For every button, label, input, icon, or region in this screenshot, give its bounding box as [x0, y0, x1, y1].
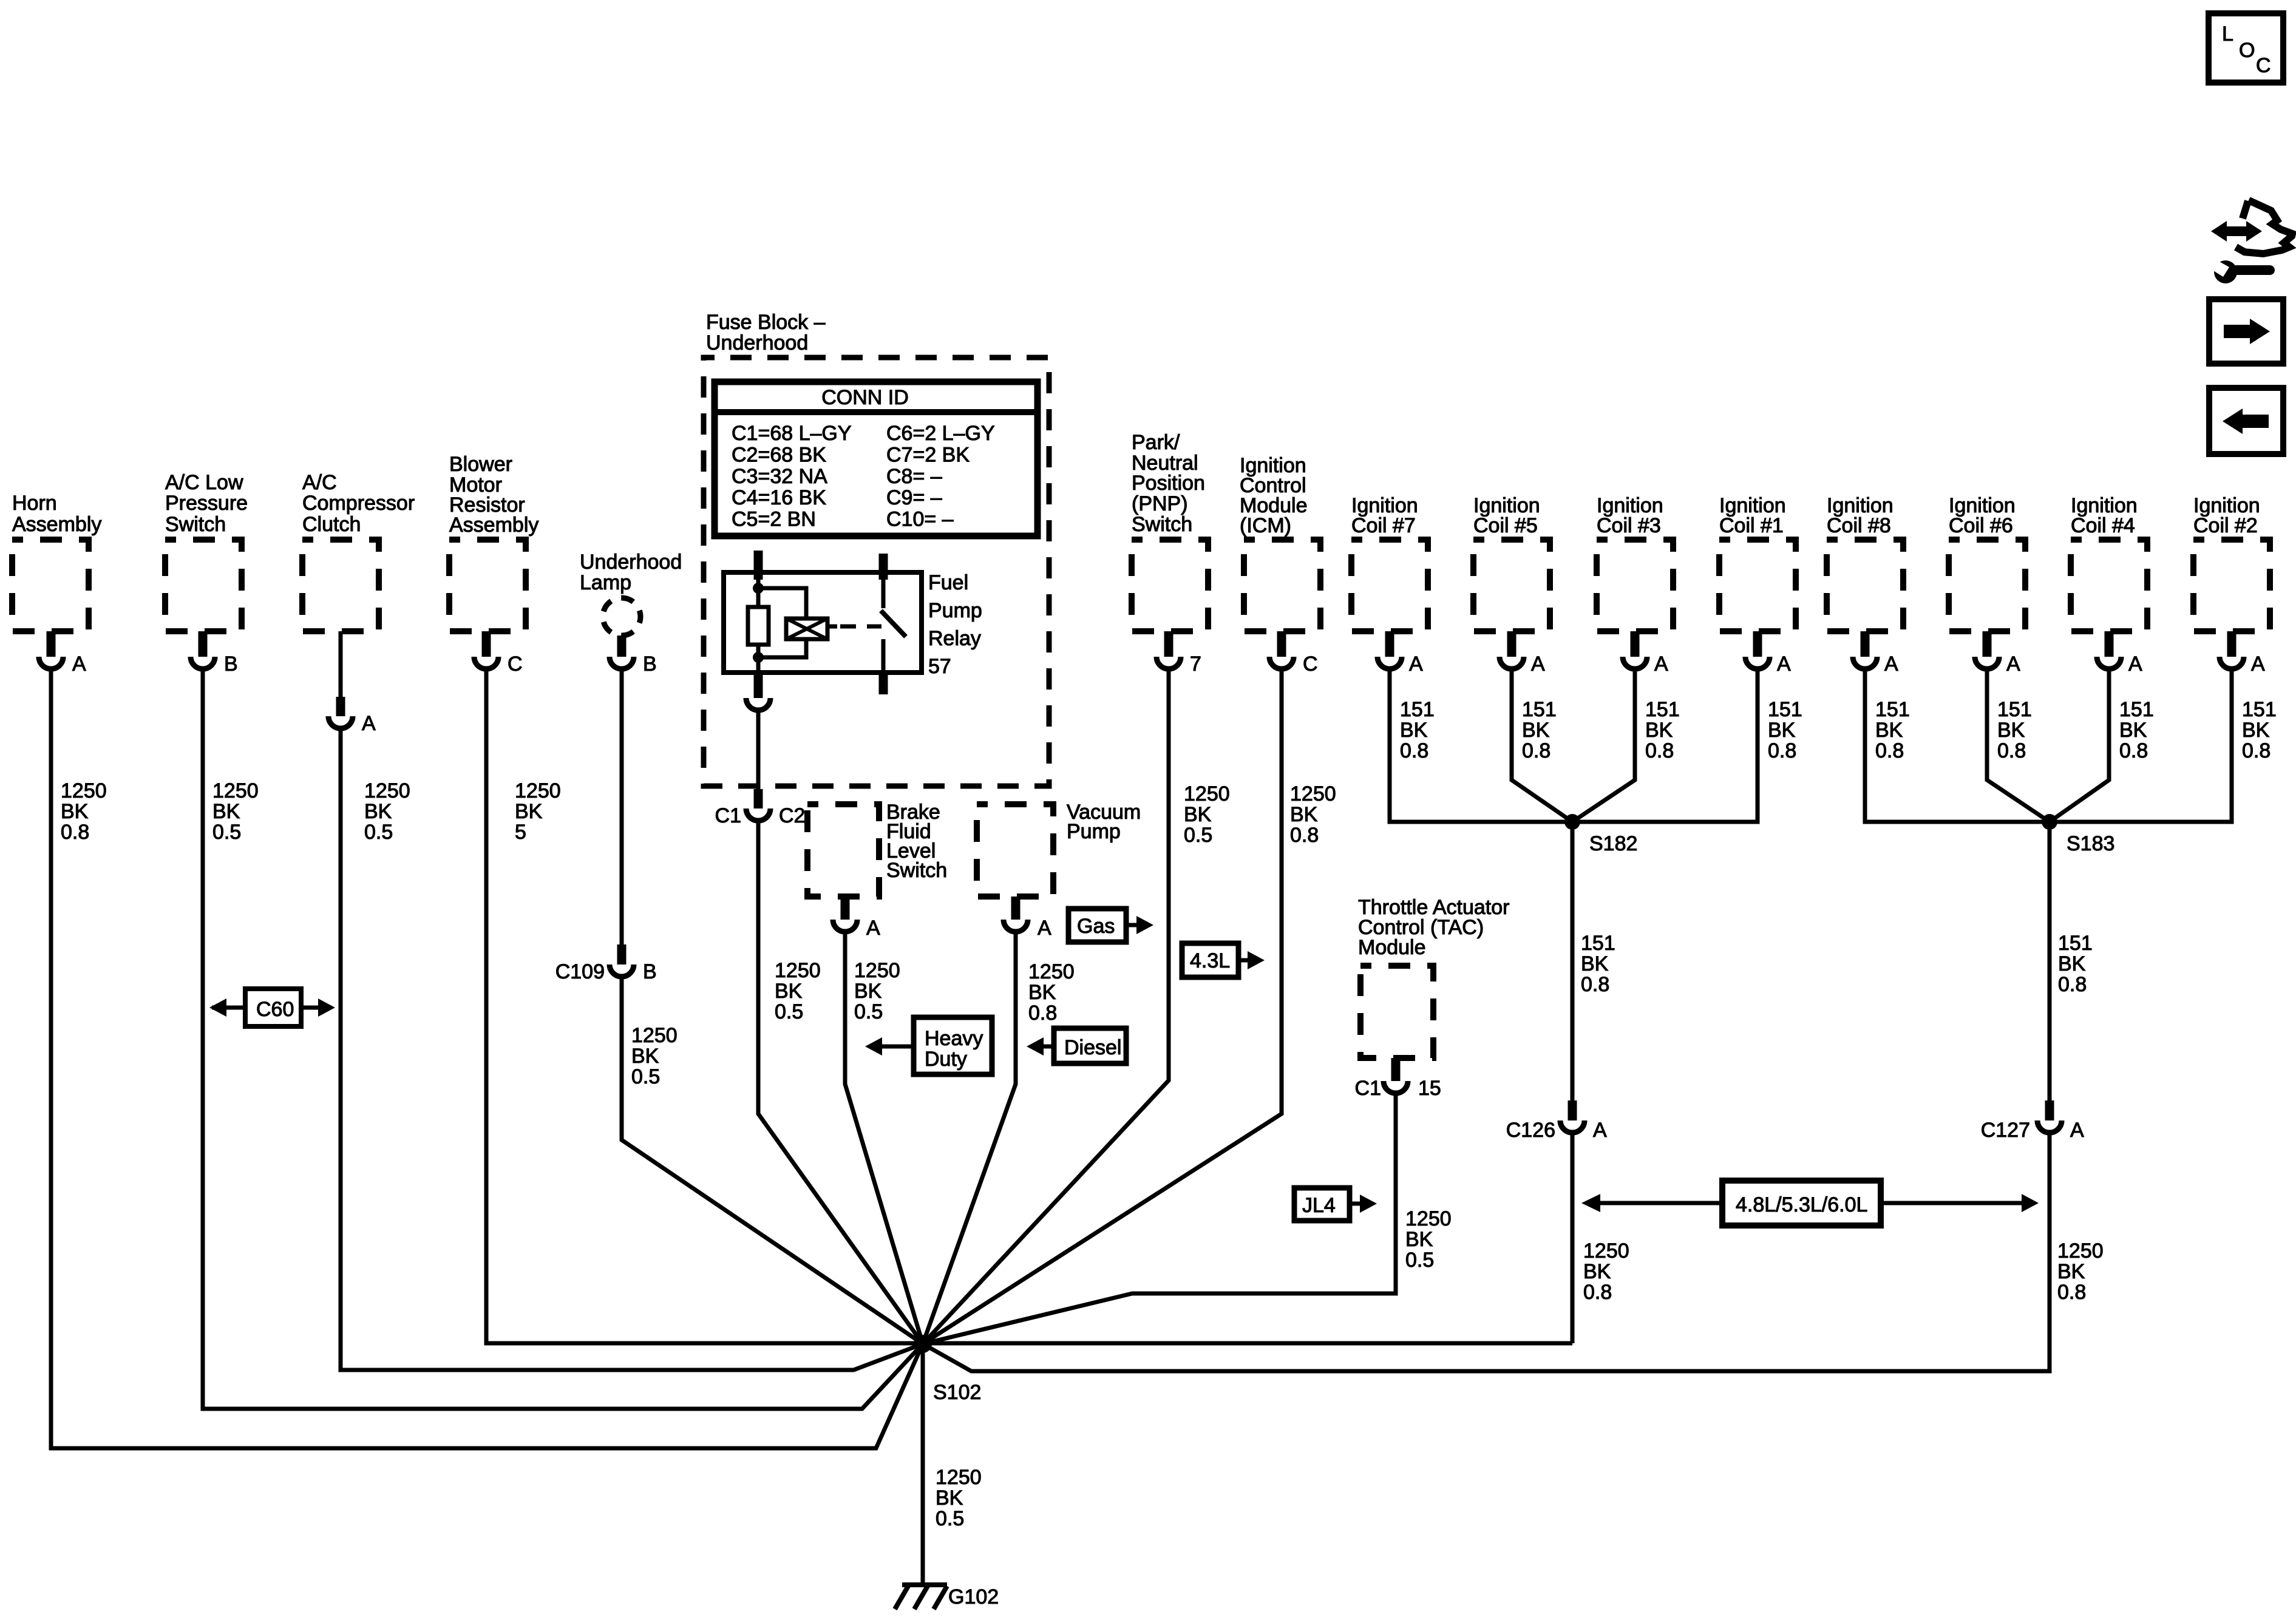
A/C low pressure connector pin B [191, 631, 238, 676]
svg-text:4.8L/5.3L/6.0L: 4.8L/5.3L/6.0L [1736, 1193, 1867, 1216]
svg-text:1250: 1250 [775, 959, 821, 982]
svg-text:Coil #3: Coil #3 [1597, 514, 1661, 537]
svg-text:Fuse Block –: Fuse Block – [706, 311, 826, 334]
wire coil #7 to S182 [1390, 671, 1572, 822]
svg-text:C: C [2256, 54, 2271, 77]
svg-text:BK: BK [1290, 803, 1318, 826]
fuse block underhood dashed box [704, 311, 1049, 786]
svg-text:BK: BK [775, 980, 803, 1003]
svg-text:BK: BK [515, 800, 543, 823]
wire horn to S102 [51, 671, 923, 1448]
svg-text:0.5: 0.5 [1405, 1249, 1434, 1272]
svg-text:C1: C1 [715, 804, 741, 827]
svg-text:BK: BK [1997, 719, 2025, 742]
svg-text:A: A [2251, 653, 2265, 676]
svg-text:1250: 1250 [364, 779, 410, 802]
svg-text:BK: BK [1875, 719, 1903, 742]
svg-text:1250: 1250 [854, 959, 900, 982]
wire label 1250 BK 0.5 (fuse block) [775, 959, 821, 1023]
svg-text:0.8: 0.8 [61, 821, 89, 844]
wire label 1250 BK 0.8 (C127) [2057, 1239, 2104, 1304]
wire vacuum pump to S102 [923, 934, 1016, 1344]
svg-text:Pump: Pump [928, 599, 982, 622]
svg-text:Assembly: Assembly [449, 514, 538, 537]
svg-text:C: C [1303, 653, 1318, 676]
wire lamp to C109 [620, 671, 624, 944]
svg-text:Park/: Park/ [1132, 431, 1180, 454]
wire label 1250 BK 0.8 (C126) [1583, 1239, 1629, 1304]
svg-text:BK: BK [61, 800, 89, 823]
wire A/C low pressure switch to S102 [203, 671, 923, 1409]
wire label 1250 BK 0.5 (underhood lamp) [631, 1024, 678, 1088]
svg-text:Coil #5: Coil #5 [1473, 514, 1538, 537]
svg-text:151: 151 [2058, 932, 2093, 955]
svg-text:0.8: 0.8 [1028, 1002, 1057, 1025]
wire label 1250 BK 0.8 (vacuum pump) [1028, 960, 1075, 1025]
wire coil #4 to S183 [2050, 671, 2109, 822]
svg-text:S182: S182 [1589, 832, 1637, 855]
wire S102 to G102 [921, 1344, 925, 1583]
relay resistor [748, 588, 769, 657]
svg-text:A: A [1038, 917, 1051, 940]
svg-text:0.8: 0.8 [1997, 739, 2026, 762]
4.8L/5.3L/6.0L tag with arrows [1581, 1181, 2039, 1225]
svg-text:Underhood: Underhood [706, 331, 808, 354]
svg-text:Coil #6: Coil #6 [1949, 514, 2013, 537]
svg-text:A: A [2128, 653, 2142, 676]
svg-text:A: A [1531, 653, 1545, 676]
svg-text:Coil #8: Coil #8 [1827, 514, 1891, 537]
JL4 tag [1294, 1188, 1377, 1221]
svg-text:1250: 1250 [1184, 782, 1230, 805]
connector C126 pin A [1506, 1100, 1607, 1142]
svg-text:0.5: 0.5 [1184, 824, 1212, 847]
forward arrow icon [2209, 299, 2283, 364]
component view icon (car outline with arrow and wrench) [2209, 200, 2292, 283]
svg-text:0.5: 0.5 [364, 821, 393, 844]
svg-text:BK: BK [2057, 1260, 2085, 1283]
LOC icon [2209, 13, 2283, 83]
svg-text:0.8: 0.8 [1645, 739, 1674, 762]
svg-text:CONN ID: CONN ID [821, 386, 909, 409]
wire label 151 BK 0.8 (coil #1) [1768, 698, 1802, 762]
svg-text:15: 15 [1418, 1077, 1441, 1100]
ICM connector pin C [1269, 631, 1318, 676]
connector C109 pin B [555, 944, 657, 983]
wire label 1250 BK 0.5 (PNP) [1184, 782, 1230, 847]
wire label 151 BK 0.8 (coil #5) [1522, 698, 1557, 762]
svg-text:0.5: 0.5 [212, 821, 241, 844]
relay junction dot bottom [753, 652, 764, 663]
wire label 151 BK 0.8 (S183) [2058, 932, 2093, 996]
wire C2 to S102 [758, 823, 923, 1344]
wire label 151 BK 0.8 (coil #3) [1645, 698, 1680, 762]
svg-text:151: 151 [1768, 698, 1802, 721]
park neutral position switch box [1132, 431, 1208, 631]
wire label 1250 BK 0.8 (ICM) [1290, 782, 1336, 847]
svg-text:0.8: 0.8 [2057, 1281, 2086, 1304]
svg-text:Coil #4: Coil #4 [2071, 514, 2135, 537]
svg-text:Switch: Switch [165, 513, 226, 536]
svg-text:BK: BK [1768, 719, 1796, 742]
relay switch [879, 554, 906, 694]
wire label 1250 BK 0.5 (TAC) [1405, 1207, 1452, 1272]
svg-text:C6=2 L–GY: C6=2 L–GY [886, 422, 995, 445]
A/C compressor clutch box [302, 471, 415, 631]
wire label 1250 BK 0.8 (horn) [61, 779, 107, 844]
svg-text:1250: 1250 [1028, 960, 1075, 983]
wire label 1250 BK 0.5 (ground wire) [936, 1466, 982, 1530]
svg-text:C4=16 BK: C4=16 BK [732, 486, 826, 509]
svg-text:BK: BK [1405, 1228, 1433, 1251]
splice S183 [2042, 814, 2114, 855]
svg-text:0.8: 0.8 [1290, 824, 1319, 847]
wire label 151 BK 0.8 (coil #6) [1997, 698, 2032, 762]
svg-text:Switch: Switch [1132, 513, 1192, 536]
svg-text:4.3L: 4.3L [1190, 949, 1230, 972]
svg-text:0.8: 0.8 [2058, 973, 2087, 996]
svg-text:Coil #2: Coil #2 [2193, 514, 2258, 537]
svg-text:A: A [1654, 653, 1668, 676]
wire coil #6 to S183 [1987, 671, 2050, 822]
svg-text:BK: BK [212, 800, 240, 823]
svg-text:7: 7 [1190, 653, 1201, 676]
svg-text:1250: 1250 [631, 1024, 678, 1047]
wire C126 to S102 [1571, 1135, 1575, 1343]
svg-text:BK: BK [631, 1045, 659, 1068]
wire label 151 BK 0.8 (coil #7) [1400, 698, 1435, 762]
svg-text:151: 151 [1997, 698, 2032, 721]
relay coil-side top lead [754, 551, 763, 590]
svg-text:Clutch: Clutch [302, 513, 361, 536]
wire brake fluid switch to S102 [845, 934, 923, 1344]
svg-text:S102: S102 [933, 1381, 981, 1404]
svg-text:L: L [2222, 22, 2233, 46]
wire label 1250 BK 0.5 (A/C low pressure) [212, 779, 259, 844]
ignition coil #1 connector pin A [1745, 631, 1791, 676]
wire coil #8 to S183 [1865, 671, 2050, 822]
svg-text:0.8: 0.8 [1522, 739, 1550, 762]
svg-text:C10= –: C10= – [886, 508, 954, 531]
connector C127 pin A [1981, 1100, 2084, 1142]
fuel pump relay 57 [724, 571, 982, 678]
underhood lamp symbol [580, 551, 682, 636]
svg-text:C127: C127 [1981, 1119, 2030, 1142]
horn connector pin A [39, 631, 86, 676]
svg-text:151: 151 [2242, 698, 2277, 721]
Diesel tag [1027, 1028, 1126, 1063]
ignition coil #7 box [1351, 494, 1428, 631]
svg-text:BK: BK [1522, 719, 1550, 742]
wire label 151 BK 0.8 (S182) [1581, 932, 1615, 996]
svg-text:0.5: 0.5 [936, 1507, 964, 1530]
wire coil #1 to S182 [1572, 671, 1758, 822]
svg-text:151: 151 [1522, 698, 1557, 721]
svg-text:A: A [1409, 653, 1423, 676]
wire coil #2 to S183 [2050, 671, 2232, 822]
svg-text:C60: C60 [256, 998, 294, 1021]
svg-text:JL4: JL4 [1302, 1194, 1336, 1217]
svg-text:BK: BK [936, 1486, 963, 1510]
svg-text:Relay: Relay [928, 627, 981, 650]
wire ICM to S102 [923, 671, 1282, 1344]
svg-text:Coil #7: Coil #7 [1351, 514, 1416, 537]
ignition coil #4 box [2071, 494, 2147, 631]
svg-text:BK: BK [1400, 719, 1428, 742]
wire label 151 BK 0.8 (coil #8) [1875, 698, 1910, 762]
svg-text:C2=68 BK: C2=68 BK [732, 443, 826, 466]
TAC connector C1 pin 15 [1355, 1058, 1441, 1100]
svg-text:1250: 1250 [61, 779, 107, 802]
svg-text:C2: C2 [779, 804, 805, 827]
svg-text:0.8: 0.8 [2242, 739, 2271, 762]
svg-text:BK: BK [364, 800, 392, 823]
svg-text:B: B [643, 960, 657, 983]
CONN ID table [715, 382, 1038, 536]
svg-text:151: 151 [1400, 698, 1435, 721]
svg-text:BK: BK [1645, 719, 1673, 742]
svg-text:151: 151 [2119, 698, 2154, 721]
svg-text:C8= –: C8= – [886, 465, 942, 488]
wire A/C compressor clutch to S102 [341, 731, 923, 1370]
blower connector pin C [474, 631, 523, 676]
svg-text:151: 151 [1645, 698, 1680, 721]
ignition coil #2 connector pin A [2220, 631, 2265, 676]
throttle actuator control module box [1358, 896, 1509, 1058]
svg-text:Switch: Switch [886, 859, 947, 882]
ignition coil #6 connector pin A [1975, 631, 2020, 676]
svg-text:5: 5 [515, 821, 526, 844]
splice S102 [914, 1335, 981, 1404]
svg-text:BK: BK [1581, 952, 1609, 975]
svg-text:BK: BK [1184, 803, 1212, 826]
svg-text:B: B [643, 653, 657, 676]
ignition coil #8 connector pin A [1853, 631, 1898, 676]
svg-text:0.8: 0.8 [1581, 973, 1609, 996]
wire S183 to C127 [2048, 822, 2052, 1100]
svg-text:Assembly: Assembly [12, 513, 101, 536]
svg-text:A: A [72, 653, 86, 676]
svg-text:C1: C1 [1355, 1077, 1381, 1100]
svg-text:0.8: 0.8 [2119, 739, 2148, 762]
ground G102 [895, 1585, 999, 1609]
svg-text:BK: BK [2058, 952, 2086, 975]
ignition coil #3 connector pin A [1623, 631, 1668, 676]
svg-text:Lamp: Lamp [580, 571, 631, 594]
svg-text:C1=68 L–GY: C1=68 L–GY [732, 422, 852, 445]
ignition control module box [1240, 454, 1320, 631]
svg-text:A/C Low: A/C Low [165, 471, 243, 494]
svg-text:C9= –: C9= – [886, 486, 942, 509]
4.3L tag [1182, 943, 1265, 977]
svg-text:(ICM): (ICM) [1240, 514, 1291, 537]
svg-text:A: A [1777, 653, 1791, 676]
svg-text:1250: 1250 [936, 1466, 982, 1489]
vacuum pump connector pin A [1004, 897, 1051, 940]
wire relay to fuse block edge [756, 713, 761, 789]
ignition coil #5 connector pin A [1500, 631, 1545, 676]
svg-text:Module: Module [1358, 936, 1426, 959]
wire S182 to C126 [1571, 822, 1575, 1100]
svg-text:A: A [866, 917, 880, 940]
svg-text:A: A [1884, 653, 1898, 676]
underhood lamp connector pin B [610, 636, 657, 676]
wire blower to S102 (horizontal through S102 to C126) [486, 671, 1572, 1343]
svg-text:Pump: Pump [1067, 820, 1121, 843]
ignition coil #5 box [1473, 494, 1550, 631]
wire label 1250 BK 5 (blower) [515, 779, 561, 844]
relay coil branch with X coil symbol [758, 588, 827, 657]
svg-text:0.8: 0.8 [1400, 739, 1428, 762]
svg-text:1250: 1250 [1290, 782, 1336, 805]
svg-text:O: O [2239, 39, 2255, 62]
svg-text:1250: 1250 [1405, 1207, 1452, 1230]
svg-text:C109: C109 [555, 960, 605, 983]
svg-text:151: 151 [1581, 932, 1615, 955]
Heavy Duty tag [865, 1017, 992, 1074]
svg-text:Compressor: Compressor [302, 492, 415, 515]
back arrow icon [2209, 388, 2283, 454]
horn assembly box [12, 492, 101, 631]
svg-text:A/C: A/C [302, 471, 337, 494]
svg-text:BK: BK [1583, 1260, 1611, 1283]
svg-text:C5=2 BN: C5=2 BN [732, 508, 816, 531]
wire label 1250 BK 0.5 (A/C compressor) [364, 779, 410, 844]
svg-text:0.5: 0.5 [854, 1000, 883, 1023]
brake fluid level switch box [807, 801, 947, 897]
svg-text:Duty: Duty [925, 1048, 967, 1071]
svg-text:C: C [508, 653, 523, 676]
svg-text:(PNP): (PNP) [1132, 492, 1188, 515]
svg-text:0.5: 0.5 [631, 1065, 660, 1088]
wire TAC to S102 [923, 1096, 1396, 1344]
relay output lead and connector [746, 657, 770, 710]
svg-text:0.8: 0.8 [1583, 1281, 1612, 1304]
svg-text:Heavy: Heavy [925, 1027, 983, 1050]
svg-text:Diesel: Diesel [1064, 1036, 1121, 1059]
wire clutch box to connector [339, 631, 343, 697]
svg-text:C7=2 BK: C7=2 BK [886, 443, 970, 466]
svg-text:Pressure: Pressure [165, 492, 248, 515]
svg-text:C3=32 NA: C3=32 NA [732, 465, 827, 488]
ignition coil #2 box [2193, 494, 2270, 631]
svg-text:1250: 1250 [1583, 1239, 1629, 1263]
svg-text:C126: C126 [1506, 1119, 1555, 1142]
svg-text:BK: BK [854, 980, 882, 1003]
svg-text:57: 57 [928, 655, 951, 678]
svg-text:A: A [2006, 653, 2020, 676]
connector C60 with arrows [209, 989, 335, 1026]
svg-text:Underhood: Underhood [580, 551, 682, 574]
ignition coil #1 box [1719, 494, 1796, 631]
relay junction dot top [753, 583, 764, 594]
svg-text:BK: BK [2119, 719, 2147, 742]
svg-text:Coil #1: Coil #1 [1719, 514, 1784, 537]
svg-text:A: A [2070, 1119, 2084, 1142]
ignition coil #7 connector pin A [1377, 631, 1423, 676]
svg-text:S183: S183 [2067, 832, 2114, 855]
blower motor resistor assembly box [449, 453, 538, 631]
PNP connector pin 7 [1156, 631, 1201, 676]
A/C compressor clutch connector pin A [328, 697, 376, 735]
wire C127 to S102 [923, 1135, 2050, 1371]
svg-text:Horn: Horn [12, 492, 57, 515]
ignition coil #6 box [1949, 494, 2025, 631]
wire label 151 BK 0.8 (coil #4) [2119, 698, 2154, 762]
svg-text:1250: 1250 [212, 779, 259, 802]
splice S182 [1564, 814, 1637, 855]
relay mechanical link dashes [827, 625, 881, 629]
wire label 1250 BK 0.5 (brake fluid) [854, 959, 900, 1023]
ignition coil #8 box [1827, 494, 1903, 631]
ignition coil #4 connector pin A [2097, 631, 2142, 676]
wire coil #3 to S182 [1572, 671, 1635, 822]
svg-text:Fuel: Fuel [928, 571, 968, 594]
ignition coil #3 box [1597, 494, 1673, 631]
vacuum pump box [977, 801, 1141, 897]
A/C low pressure switch box [165, 471, 248, 631]
svg-text:1250: 1250 [515, 779, 561, 802]
wire C109 to S102 [622, 979, 923, 1344]
brake fluid connector pin A [833, 897, 880, 940]
svg-text:Blower: Blower [449, 453, 512, 476]
svg-text:A: A [362, 712, 376, 735]
svg-text:B: B [224, 653, 238, 676]
svg-text:BK: BK [1028, 981, 1056, 1004]
svg-text:151: 151 [1875, 698, 1910, 721]
svg-text:G102: G102 [948, 1585, 999, 1609]
svg-text:A: A [1593, 1119, 1607, 1142]
svg-text:0.5: 0.5 [775, 1000, 803, 1023]
svg-text:1250: 1250 [2057, 1239, 2104, 1263]
wire label 151 BK 0.8 (coil #2) [2242, 698, 2277, 762]
svg-text:Position: Position [1132, 472, 1205, 495]
wire PNP to S102 [923, 671, 1169, 1344]
wire coil #5 to S182 [1512, 671, 1572, 822]
svg-text:0.8: 0.8 [1768, 739, 1796, 762]
connector C1 C2 at fuse block [715, 789, 806, 827]
svg-text:BK: BK [2242, 719, 2270, 742]
Gas tag [1068, 909, 1153, 942]
svg-text:0.8: 0.8 [1875, 739, 1904, 762]
svg-text:Gas: Gas [1077, 915, 1115, 938]
